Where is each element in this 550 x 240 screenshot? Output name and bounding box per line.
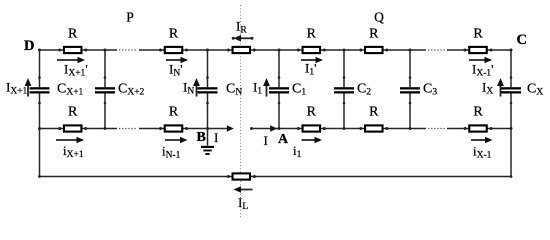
current arrow Ix+1' <box>57 59 79 61</box>
wire column C2 lower <box>343 93 345 128</box>
svg-text:IN: IN <box>183 80 194 97</box>
resistor R (IN branch) top rail <box>165 47 183 53</box>
svg-text:Q: Q <box>374 10 384 25</box>
junction bottom-right corner <box>510 175 513 178</box>
svg-text:CN: CN <box>226 82 242 98</box>
current arrow Ix+1 (up) <box>27 85 29 97</box>
junction mid rail x=344 <box>343 127 346 130</box>
capacitor C1 <box>269 87 289 89</box>
cut line (dotted) <box>240 5 242 219</box>
junction top rail x=344 <box>343 49 346 52</box>
wire right rail lower <box>510 93 512 176</box>
wire top rail right <box>447 49 511 51</box>
wire mid rail dotted gap left <box>119 128 137 130</box>
junction mid rail x=511 <box>510 127 513 130</box>
current arrow iN-1 <box>165 139 182 141</box>
resistor R (IL branch) bottom rail <box>233 173 251 179</box>
wire column C1 upper <box>278 50 280 87</box>
svg-text:IL: IL <box>238 195 248 212</box>
svg-text:i1: i1 <box>293 143 302 160</box>
capacitor C3 <box>400 87 420 89</box>
svg-text:A: A <box>278 132 289 147</box>
resistor R (Ix+1 branch) top rail <box>64 47 81 53</box>
current arrow ix+1 <box>56 139 78 141</box>
junction top rail x=39.5 <box>38 49 41 52</box>
junction top rail x=207.5 <box>206 49 209 52</box>
wire column CN lower <box>207 93 209 128</box>
svg-text:R: R <box>68 27 78 42</box>
resistor R (i1 branch) mid rail <box>303 125 321 131</box>
resistor R (iN-1 branch) mid rail <box>165 125 183 131</box>
wire top rail dotted gap right <box>428 49 445 51</box>
current arrow IN (up) <box>196 85 198 97</box>
resistor R (ix-1 branch) mid rail <box>469 125 487 131</box>
junction mid rail x=279 <box>278 127 281 130</box>
wire bottom return rail <box>40 176 512 178</box>
junction top rail x=279 <box>278 49 281 52</box>
wire top rail dotted gap left <box>119 49 137 51</box>
wire column C3 upper <box>409 50 411 87</box>
current arrow IL (left) <box>240 189 253 191</box>
junction bottom-left corner <box>38 175 41 178</box>
svg-text:IX: IX <box>482 80 493 97</box>
svg-text:I1: I1 <box>253 80 262 97</box>
wire column C3 lower <box>409 93 411 128</box>
ground at node B <box>207 129 209 146</box>
capacitor CN <box>198 87 218 89</box>
wire mid rail left-center <box>139 128 228 130</box>
wire column C1 lower <box>278 93 280 128</box>
svg-text:iX+1: iX+1 <box>63 143 84 160</box>
wire column Cx+2 lower <box>104 93 106 128</box>
svg-text:IX+1': IX+1' <box>64 62 88 79</box>
svg-text:iX-1: iX-1 <box>473 144 492 161</box>
resistor R (I1 branch) top rail <box>303 47 321 53</box>
capacitor C2 <box>334 87 354 89</box>
svg-text:CX: CX <box>527 82 543 98</box>
wire column C2 upper <box>343 50 345 87</box>
capacitor Cx <box>501 87 521 89</box>
junction top rail x=410 <box>409 49 412 52</box>
capacitor Cx+1 <box>30 87 50 89</box>
svg-text:I: I <box>214 130 218 145</box>
svg-text:C: C <box>517 32 527 48</box>
svg-text:CX+2: CX+2 <box>118 82 145 98</box>
svg-text:D: D <box>24 38 34 54</box>
svg-text:iN-1: iN-1 <box>162 144 181 161</box>
svg-text:IX-1': IX-1' <box>472 62 493 79</box>
wire mid rail left <box>40 128 118 130</box>
svg-text:B: B <box>197 130 206 145</box>
wire mid rail right-center <box>252 128 427 130</box>
junction mid rail x=39.5 <box>38 127 41 130</box>
wire mid rail right <box>447 128 511 130</box>
current arrow Ix-1' <box>469 59 486 61</box>
svg-text:C2: C2 <box>357 82 371 98</box>
current arrow Ix (up) <box>500 85 502 97</box>
svg-text:R: R <box>307 105 317 120</box>
wire top rail left <box>40 49 118 51</box>
junction top rail x=105 <box>104 49 107 52</box>
svg-text:R: R <box>307 27 317 42</box>
svg-text:C1: C1 <box>292 82 306 98</box>
current arrow IN' <box>166 59 182 61</box>
junction mid rail x=410 <box>409 127 412 130</box>
current arrow i1 <box>302 139 317 141</box>
svg-text:R: R <box>473 105 483 120</box>
junction top rail x=511 <box>510 49 513 52</box>
svg-text:R: R <box>68 105 78 120</box>
svg-text:R: R <box>369 105 379 120</box>
svg-text:IX+1: IX+1 <box>6 80 28 97</box>
junction mid rail x=207.5 <box>206 127 209 130</box>
current arrow IR (left) <box>240 37 252 39</box>
wire right rail upper <box>510 50 512 87</box>
wire column CN upper <box>207 50 209 87</box>
svg-text:CX+1: CX+1 <box>57 82 84 98</box>
svg-text:R: R <box>369 27 379 42</box>
svg-text:R: R <box>169 27 179 42</box>
svg-text:IN': IN' <box>169 62 183 79</box>
current arrow I1 (up) <box>266 85 268 97</box>
resistor R (middle) mid rail <box>365 125 383 131</box>
capacitor Cx+2 <box>95 87 115 89</box>
resistor R (Ix-1 branch) top rail <box>469 47 487 53</box>
resistor R (ix+1 branch) mid rail <box>64 125 81 131</box>
svg-text:R: R <box>169 105 179 120</box>
svg-text:I: I <box>264 133 268 148</box>
wire left rail lower <box>39 93 41 176</box>
wire column Cx+2 upper <box>104 50 106 87</box>
resistor R (IR branch) top rail <box>233 47 251 53</box>
svg-text:I1': I1' <box>305 61 316 78</box>
wire top rail middle <box>139 49 426 51</box>
resistor R (under Q) top rail <box>365 47 383 53</box>
svg-text:C3: C3 <box>423 82 437 98</box>
current arrow I1' <box>301 59 317 61</box>
wire left rail upper <box>39 50 41 87</box>
svg-text:R: R <box>473 27 483 42</box>
current arrow ix-1 <box>471 139 487 141</box>
junction mid rail x=105 <box>104 127 107 130</box>
current arrow I out of node B <box>227 125 234 131</box>
wire mid rail dotted gap right <box>428 128 445 130</box>
svg-text:IR: IR <box>236 19 247 36</box>
svg-text:P: P <box>126 10 134 25</box>
current arrow I into node A <box>270 125 277 131</box>
